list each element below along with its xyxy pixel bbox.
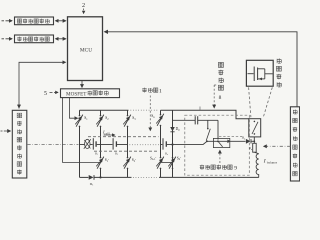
small switch box <box>213 138 229 147</box>
svg-text:8: 8 <box>219 95 222 101</box>
capacitor C <box>194 116 196 124</box>
switch S2p <box>127 157 129 159</box>
current sensor (circle-X) <box>85 139 90 148</box>
diode D0 on branch (down) <box>170 127 175 131</box>
battery pack dashed outline <box>88 136 159 138</box>
inner dash row <box>219 135 242 137</box>
balance current detection module (vertical box right) <box>290 107 299 181</box>
bottom bus wire with diode D1 <box>80 176 89 178</box>
battery pack 1 label with dashed leader <box>142 88 146 93</box>
flow arrow on wire <box>227 140 230 144</box>
branch n vertical <box>160 110 162 177</box>
svg-text:2: 2 <box>82 2 85 9</box>
gate drive line to bottom switch rail <box>63 98 101 163</box>
node at right end of cell string <box>171 143 173 145</box>
inductor L coil <box>255 152 259 154</box>
dashed enclosure module 9 <box>185 115 250 175</box>
capacitor wire <box>173 119 196 121</box>
cell continuation dots <box>130 144 160 146</box>
wire MCU right to top-right corner and down to balance-current box <box>105 32 298 107</box>
svg-text:MCU: MCU <box>80 48 92 54</box>
cell row wire with sensor <box>80 144 85 146</box>
unidirectional switch (boxed) <box>249 119 261 137</box>
label balance selection switch 9 with dashed arrow <box>200 165 204 170</box>
wire temperature box to MCU (double arrow) <box>56 38 66 40</box>
switch Sn <box>160 114 162 116</box>
voltage detect module box <box>15 17 54 25</box>
lead-in arrow left of module <box>1 130 11 132</box>
branch 2 vertical <box>100 110 102 177</box>
junction tick at node <box>199 107 201 111</box>
battery cell B1 <box>92 138 94 149</box>
resistor Rn <box>253 143 257 152</box>
lead-in arrow to voltage box <box>2 20 13 22</box>
bus current detection module (vertical box) <box>12 110 26 178</box>
diode Dn <box>246 139 251 144</box>
switch Sn-1p <box>160 157 162 159</box>
diode D1 <box>89 175 94 180</box>
label: unidirectional switch (vertical) <box>277 58 281 63</box>
lead-in arrow to temperature box <box>2 38 13 40</box>
svg-text:1: 1 <box>159 89 162 95</box>
dash-dot sense arrow to resistor node <box>264 145 291 147</box>
top bus wire <box>80 109 129 111</box>
unidirectional switch callout box <box>246 60 273 86</box>
switch S1p <box>100 157 102 159</box>
svg-text:9: 9 <box>234 166 237 172</box>
wire from cell node to selector output <box>173 141 246 144</box>
switch Snp <box>172 157 174 159</box>
svg-text:balance: balance <box>267 160 278 164</box>
svg-text:5: 5 <box>44 91 47 97</box>
branch 1 vertical <box>79 110 81 177</box>
battery cell B2 <box>101 144 113 146</box>
callout dashed leaders <box>249 87 251 117</box>
svg-text:MOSFET: MOSFET <box>66 91 87 97</box>
arrow MCU to MOSFET driver <box>81 81 83 88</box>
switch S1 <box>79 115 81 117</box>
MOSFET driver module box <box>61 89 120 98</box>
gate drive line to top switch S1 <box>70 98 78 119</box>
switch S3 <box>127 115 129 117</box>
temperature detect module box <box>15 35 54 43</box>
wire voltage box to MCU (double arrow) <box>56 20 66 22</box>
MCU U1 box <box>68 17 103 81</box>
branch 3 vertical <box>127 110 129 177</box>
switch S2 <box>100 115 102 117</box>
MOSFET symbol inside <box>248 73 254 75</box>
selector switch b vertical <box>217 120 219 139</box>
branch diode vertical <box>172 110 174 177</box>
label balancing module 8 (vertical) with dashed leader <box>218 62 223 67</box>
selector switch a <box>207 120 209 128</box>
wire bus-current module up and into MCU left <box>19 62 66 108</box>
dash-dot sense line to cell string <box>28 144 79 146</box>
battery cell Bn <box>161 144 163 146</box>
